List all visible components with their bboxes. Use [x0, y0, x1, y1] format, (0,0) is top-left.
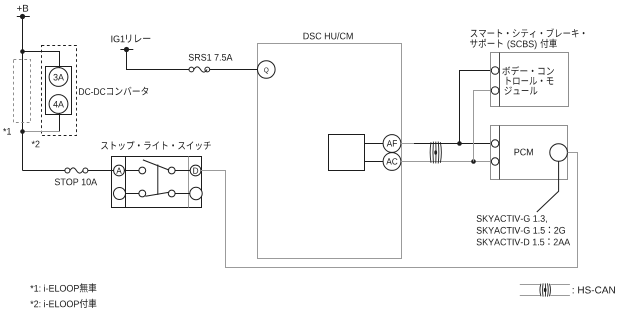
lower contact right: [168, 190, 175, 197]
wire CAN-L AC to PCM (gray): [401, 161, 491, 163]
PCM box: [491, 126, 568, 180]
battery feed terminal node +B: [17, 14, 30, 19]
DSC connector pin AC: [383, 153, 401, 171]
DC-DC converter dashed outline *1 (gray): [14, 60, 31, 123]
wire lower contact to lower-right pin: [175, 193, 190, 195]
wire CAN-H AF to PCM: [414, 143, 491, 145]
fuse 3A: [49, 68, 68, 87]
wire stop light switch D to PCM (gray loop): [201, 153, 578, 268]
wire SRS1 fuse to DSC pin Q: [210, 69, 258, 71]
value label SRS1 7.5A: [189, 54, 233, 61]
label *2: [32, 141, 40, 148]
body control module terminal divider: [499, 53, 501, 107]
BCM pin CAN-H: [491, 67, 499, 75]
switch pin A: [114, 165, 125, 176]
label サポート (SCBS) 付車: [470, 39, 557, 50]
label DSC HU/CM: [304, 32, 353, 39]
leader line to SKYACTIV note: [537, 161, 559, 212]
label DC-DC コンバータ: [79, 87, 148, 96]
wire branch to fuse 3A: [23, 52, 60, 68]
label スマート・シティ・ブレーキ・: [471, 28, 585, 37]
junction CAN-H branch: [457, 141, 462, 146]
body control module box: [491, 53, 569, 107]
switch pin lower-left (blank): [114, 188, 126, 200]
junction +B feed to DC-DC converter: [20, 49, 25, 54]
PCM pin CAN-L: [491, 158, 498, 165]
switch pin D: [190, 165, 201, 176]
switch lever lower (closed): [145, 192, 169, 196]
junction fuse return to main: [20, 129, 25, 134]
twisted pair symbol (HS-CAN): [430, 142, 441, 164]
BCM pin CAN-L: [491, 87, 499, 95]
switch lever upper (open): [143, 160, 169, 170]
footnote *2: i-ELOOP付車: [30, 299, 96, 308]
lower contact left: [139, 190, 146, 197]
wire block to pin AF: [365, 143, 384, 145]
fuse 4A: [49, 95, 68, 114]
wire pin A to upper contact: [124, 170, 139, 172]
net label +B: [17, 5, 28, 12]
stop light switch terminal divider right (gray): [188, 157, 190, 208]
wire CAN-H branch to body control module: [460, 71, 492, 144]
wire fuse return to main (i-ELOOP, gray): [23, 131, 60, 133]
wire STOP fuse to stop light switch pin A: [88, 170, 114, 172]
IG1 relay feed node: [120, 47, 133, 52]
wire block to pin AC: [365, 161, 384, 163]
wire lower-left pin to contact: [126, 193, 140, 195]
PCM stop signal pin: [550, 144, 568, 162]
wire fuse 4A return down: [59, 113, 61, 131]
upper contact right: [168, 167, 175, 174]
stop light switch terminal divider left: [125, 157, 127, 208]
fuse holder box: [46, 67, 72, 115]
label ストップ・ライト・スイッチ: [101, 141, 211, 150]
label ボデー・コントロール・モジュール: [502, 66, 554, 95]
wire CAN-H stub at DSC (gray): [401, 143, 414, 145]
stop light switch box: [112, 157, 202, 208]
wire main +B feed vertical: [22, 17, 24, 171]
upper contact left: [139, 167, 146, 174]
DSC connector pin AF: [383, 135, 401, 153]
wire main feed to STOP fuse: [23, 170, 65, 172]
legend twisted pair symbol: [520, 283, 570, 296]
DSC internal block: [329, 135, 365, 171]
wire IG1 relay to SRS1 fuse: [127, 50, 190, 70]
label *1: [3, 128, 11, 135]
wire upper contact to pin D: [175, 170, 190, 172]
DC-DC converter dashed outline *2: [42, 46, 77, 136]
footnote *1: i-ELOOP無車: [30, 283, 96, 292]
DSC connector pin Q: [258, 61, 276, 79]
legend label : HS-CAN: [573, 286, 615, 293]
PCM terminal divider: [499, 126, 501, 180]
label PCM: [515, 149, 533, 156]
switch pin lower-right (blank): [190, 187, 202, 199]
value label STOP 10A: [55, 179, 97, 186]
note SKYACTIV-G 1.5：2G: [477, 227, 565, 234]
net label IG1リレー: [111, 35, 150, 43]
PCM pin CAN-H: [491, 140, 498, 147]
note SKYACTIV-G 1.3,: [477, 215, 547, 223]
switch mechanical link: [157, 165, 159, 195]
wire CAN-L branch to body control module (gray): [474, 91, 492, 162]
fuse STOP 10A: [65, 168, 88, 173]
DSC HU/CM box (gray): [258, 44, 402, 259]
junction CAN-L branch: [471, 159, 476, 164]
note SKYACTIV-D 1.5：2AA: [477, 238, 570, 245]
fuse SRS1: [189, 67, 210, 72]
